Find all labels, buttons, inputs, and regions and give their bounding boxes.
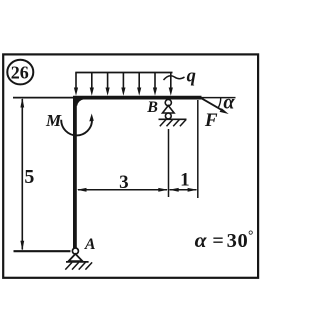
distributed load arrow 5 (138, 73, 140, 90)
q leader squiggle (164, 76, 185, 80)
wire: top-left extension line (13, 97, 73, 99)
problem number badge circle (7, 60, 33, 85)
support B roller circle (165, 113, 171, 119)
force F arrowhead (220, 108, 229, 114)
support B triangle (163, 106, 175, 114)
svg-text:A: A (84, 236, 96, 253)
support A pin circle (72, 248, 78, 254)
distributed load arrow 7 (170, 73, 172, 90)
wire: bottom-left extension line (14, 250, 71, 252)
dimension line 3 (78, 189, 167, 191)
column member (vertical beam) (73, 96, 77, 248)
svg-text:°: ° (248, 227, 253, 242)
svg-text:3: 3 (119, 172, 129, 193)
angle alpha arc (218, 98, 221, 108)
distributed load arrow 1 (74, 73, 173, 96)
support A ground line (66, 261, 89, 263)
svg-text:26: 26 (11, 63, 29, 83)
svg-text:B: B (146, 99, 158, 116)
svg-text:=: = (212, 230, 223, 252)
moment arrowhead (89, 114, 94, 122)
svg-text:α: α (195, 228, 208, 252)
moment M arc (61, 120, 92, 136)
border frame of problem box (3, 54, 258, 277)
svg-text:M: M (45, 111, 62, 130)
extension line below B (168, 129, 170, 197)
support B ground line (159, 118, 187, 120)
support B hatching (160, 120, 186, 127)
distributed load q top line (75, 72, 172, 74)
svg-text:5: 5 (24, 166, 34, 188)
thin beam axis extension to the right (202, 97, 236, 99)
svg-text:F: F (204, 110, 218, 131)
svg-text:1: 1 (180, 170, 190, 191)
distributed load arrow 3 (107, 73, 109, 90)
horizontal beam member (73, 96, 202, 100)
force F line (202, 98, 225, 111)
distributed load arrow 6 (154, 73, 156, 90)
svg-text:30: 30 (227, 230, 249, 252)
distributed load arrow 2 (91, 73, 93, 90)
support B pin circle (165, 100, 171, 106)
support A triangle (69, 254, 83, 261)
svg-text:q: q (187, 67, 196, 87)
extension line below beam end (197, 100, 199, 198)
distributed load arrow 4 (122, 73, 124, 90)
dimension line 1 (170, 189, 197, 191)
svg-text:α: α (223, 92, 235, 114)
support A hatching (65, 262, 92, 269)
dimension line 5 (vertical) (21, 99, 23, 250)
corner fillet at frame joint (76, 99, 84, 106)
